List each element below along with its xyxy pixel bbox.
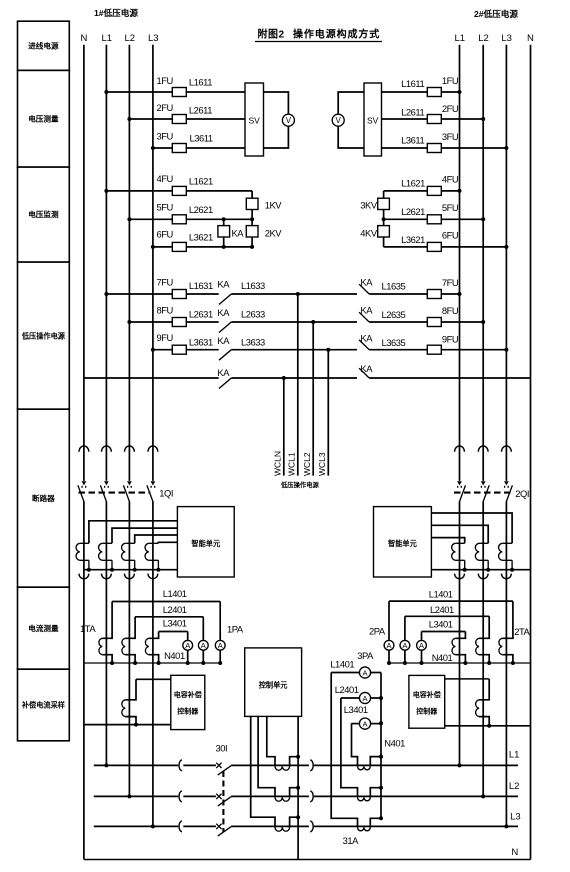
svg-text:控制单元: 控制单元: [259, 681, 289, 690]
svg-text:N401: N401: [384, 738, 405, 749]
svg-text:A: A: [419, 641, 424, 650]
svg-text:3FU: 3FU: [157, 131, 174, 142]
svg-text:L1401: L1401: [330, 659, 354, 670]
svg-text:SV: SV: [367, 116, 379, 126]
svg-text:6FU: 6FU: [442, 230, 459, 241]
svg-text:4KV: 4KV: [360, 228, 378, 239]
svg-text:L1633: L1633: [241, 280, 265, 291]
svg-text:L3401: L3401: [163, 617, 187, 628]
svg-text:L3401: L3401: [429, 618, 453, 629]
svg-text:1TA: 1TA: [80, 623, 96, 634]
svg-text:9FU: 9FU: [157, 332, 174, 343]
svg-text:L3633: L3633: [241, 337, 265, 348]
svg-text:L2611: L2611: [189, 105, 212, 116]
svg-text:A: A: [201, 641, 206, 650]
svg-text:KA: KA: [360, 363, 373, 374]
svg-text:7FU: 7FU: [157, 277, 174, 288]
svg-text:KA: KA: [217, 307, 230, 318]
svg-text:8FU: 8FU: [157, 305, 174, 316]
svg-text:SV: SV: [249, 116, 261, 126]
svg-text:L1635: L1635: [382, 281, 406, 292]
svg-text:L3621: L3621: [401, 234, 425, 245]
svg-text:2FU: 2FU: [442, 103, 459, 114]
svg-text:L2635: L2635: [382, 309, 406, 320]
svg-text:L2633: L2633: [241, 309, 265, 320]
svg-text:附图2: 附图2: [258, 28, 285, 41]
svg-text:断路器: 断路器: [32, 493, 55, 503]
svg-text:1FU: 1FU: [442, 75, 459, 86]
svg-text:2TA: 2TA: [514, 626, 530, 637]
svg-text:补偿电流采样: 补偿电流采样: [21, 701, 65, 710]
svg-text:KA: KA: [360, 277, 373, 288]
svg-text:L3: L3: [148, 33, 159, 44]
svg-text:电压监测: 电压监测: [28, 209, 59, 219]
svg-text:1KV: 1KV: [265, 200, 283, 211]
svg-text:L3: L3: [501, 33, 512, 44]
svg-text:3FU: 3FU: [442, 131, 459, 142]
svg-text:A: A: [362, 669, 367, 678]
svg-text:31A: 31A: [343, 835, 360, 846]
svg-text:智能单元: 智能单元: [388, 539, 418, 548]
svg-text:8FU: 8FU: [442, 305, 459, 316]
svg-text:6FU: 6FU: [157, 229, 174, 240]
svg-text:L2631: L2631: [189, 309, 213, 320]
svg-text:L1621: L1621: [401, 178, 425, 189]
svg-text:L3635: L3635: [382, 337, 406, 348]
svg-text:WCLN: WCLN: [273, 451, 283, 476]
svg-text:L1: L1: [102, 33, 113, 44]
svg-text:9FU: 9FU: [442, 334, 459, 345]
svg-text:1#低压电源: 1#低压电源: [94, 7, 138, 18]
svg-text:WCL2: WCL2: [302, 452, 312, 476]
svg-text:A: A: [185, 641, 190, 650]
svg-text:2QI: 2QI: [515, 488, 529, 499]
svg-text:A: A: [218, 641, 223, 650]
svg-text:L3621: L3621: [189, 232, 213, 243]
svg-text:KA: KA: [217, 335, 230, 346]
svg-text:A: A: [362, 694, 367, 703]
svg-text:电流测量: 电流测量: [28, 623, 59, 633]
svg-text:L2: L2: [478, 33, 489, 44]
svg-text:低压操作电源: 低压操作电源: [280, 480, 319, 489]
svg-text:KA: KA: [360, 333, 373, 344]
svg-text:V: V: [286, 116, 292, 125]
svg-text:2PA: 2PA: [369, 626, 386, 637]
svg-text:智能单元: 智能单元: [191, 539, 221, 548]
svg-text:L2: L2: [509, 781, 520, 792]
svg-text:1QI: 1QI: [159, 488, 173, 499]
svg-text:电容补偿: 电容补偿: [174, 690, 202, 699]
svg-text:L1611: L1611: [189, 77, 212, 88]
svg-text:2#低压电源: 2#低压电源: [474, 8, 518, 19]
svg-text:WCL3: WCL3: [317, 452, 327, 476]
svg-text:A: A: [402, 641, 407, 650]
svg-text:L2611: L2611: [401, 107, 424, 118]
svg-text:操作电源构成方式: 操作电源构成方式: [293, 28, 380, 41]
svg-text:L2621: L2621: [401, 206, 425, 217]
svg-text:KA: KA: [217, 279, 230, 290]
svg-text:WCL1: WCL1: [287, 452, 297, 476]
svg-text:KA: KA: [360, 305, 373, 316]
svg-text:L3611: L3611: [190, 133, 213, 144]
svg-text:L1611: L1611: [401, 78, 424, 89]
svg-text:电压测量: 电压测量: [28, 113, 59, 123]
svg-text:电容补偿: 电容补偿: [413, 690, 441, 699]
svg-text:控制器: 控制器: [177, 707, 199, 716]
svg-text:A: A: [362, 720, 367, 729]
svg-text:1PA: 1PA: [227, 624, 244, 635]
svg-text:L3401: L3401: [344, 704, 368, 715]
svg-text:4FU: 4FU: [442, 174, 459, 185]
svg-text:L2401: L2401: [430, 604, 454, 615]
svg-text:4FU: 4FU: [157, 173, 174, 184]
svg-text:7FU: 7FU: [442, 277, 459, 288]
svg-text:进线电源: 进线电源: [28, 40, 59, 50]
svg-text:L1401: L1401: [429, 588, 453, 599]
svg-text:L1621: L1621: [189, 176, 213, 187]
svg-text:N401: N401: [432, 652, 453, 663]
svg-text:L1: L1: [455, 33, 466, 44]
svg-text:30I: 30I: [216, 743, 228, 754]
svg-text:L1: L1: [509, 750, 520, 761]
svg-text:L1401: L1401: [163, 588, 187, 599]
svg-text:2FU: 2FU: [157, 102, 174, 113]
svg-text:5FU: 5FU: [442, 202, 459, 213]
svg-text:N401: N401: [164, 650, 185, 661]
svg-text:L2: L2: [125, 33, 136, 44]
svg-text:KA: KA: [217, 367, 230, 378]
svg-text:2KV: 2KV: [265, 228, 283, 239]
svg-text:控制器: 控制器: [416, 707, 438, 716]
svg-text:L3631: L3631: [189, 337, 213, 348]
svg-text:L3: L3: [510, 812, 521, 823]
svg-text:L2401: L2401: [163, 604, 187, 615]
svg-text:KA: KA: [232, 228, 245, 239]
svg-text:3KV: 3KV: [360, 200, 378, 211]
svg-text:L2621: L2621: [189, 204, 213, 215]
svg-text:V: V: [336, 116, 342, 125]
svg-text:N: N: [81, 33, 88, 44]
svg-text:低压操作电源: 低压操作电源: [21, 331, 66, 340]
svg-text:5FU: 5FU: [157, 202, 174, 213]
svg-text:L2401: L2401: [335, 684, 359, 695]
svg-text:3PA: 3PA: [357, 650, 374, 661]
svg-text:N: N: [511, 847, 518, 858]
svg-text:L3611: L3611: [401, 135, 424, 146]
svg-text:L1631: L1631: [189, 280, 213, 291]
svg-text:N: N: [527, 33, 534, 44]
svg-text:A: A: [386, 641, 391, 650]
svg-text:1FU: 1FU: [157, 75, 174, 86]
